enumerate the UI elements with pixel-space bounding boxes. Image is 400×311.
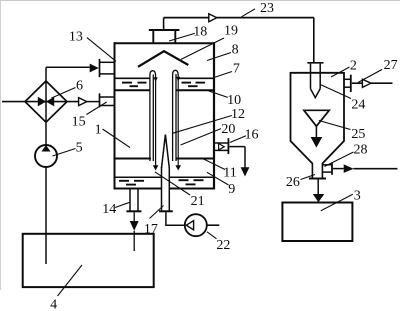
leader 7 xyxy=(214,72,232,78)
svg-text:14: 14 xyxy=(102,202,116,217)
svg-text:7: 7 xyxy=(233,62,240,77)
leader 28 xyxy=(325,152,354,167)
svg-text:13: 13 xyxy=(69,29,83,44)
cyclone bottom arrowhead xyxy=(313,194,325,202)
svg-text:19: 19 xyxy=(224,24,238,39)
right riser tube left wall xyxy=(172,75,174,162)
valve 28 bottom line xyxy=(322,171,331,173)
left riser tube 12 right wall xyxy=(152,75,154,162)
pipe 14 arrowhead xyxy=(130,221,139,231)
solid arrow into port 13 xyxy=(90,64,99,73)
branch line to port 13 xyxy=(46,66,90,68)
leader 11 xyxy=(202,158,226,170)
port 15 top line xyxy=(100,96,115,98)
liquid tildes upper-left tray xyxy=(122,83,147,87)
left tube flow line xyxy=(155,76,157,166)
vessel U1 lid xyxy=(114,42,216,44)
feed line from left edge xyxy=(2,101,79,103)
deflector 19 inverted V xyxy=(138,51,188,67)
cyclone 2 cone left xyxy=(291,141,313,164)
upper tray top left xyxy=(115,77,150,79)
outlet 16 arrowhead xyxy=(241,167,250,176)
svg-text:10: 10 xyxy=(227,93,241,108)
port 20 open arrow xyxy=(219,143,225,150)
central downcomer 17 left wall xyxy=(161,167,163,211)
chimney 18 left wall xyxy=(152,31,154,43)
svg-text:18: 18 xyxy=(193,24,207,39)
line diamond to pump 5 xyxy=(45,67,47,146)
central downcomer 21 wedge left xyxy=(162,135,166,169)
line arrow to port 15 xyxy=(87,101,99,103)
central downcomer 21 wedge right xyxy=(165,135,169,169)
port 20 bottom line xyxy=(215,149,228,151)
svg-text:23: 23 xyxy=(260,1,274,16)
pump 22 body xyxy=(185,214,207,236)
right tube bottom arrowhead xyxy=(175,165,181,170)
svg-text:8: 8 xyxy=(232,43,239,58)
right tube upper arrowhead xyxy=(176,77,180,82)
cyclone 2 left wall xyxy=(290,72,292,142)
svg-text:1: 1 xyxy=(95,123,102,138)
heat exchanger 6 diamond xyxy=(25,81,67,122)
valve 28 outlet line xyxy=(353,168,397,170)
port 13 bottom line xyxy=(100,73,115,75)
central downcomer 17 right wall xyxy=(168,167,170,211)
nozzle 27 line to arrow xyxy=(352,82,363,84)
partition shelf left xyxy=(115,158,151,160)
leader 6 xyxy=(52,88,76,99)
leader 26 xyxy=(301,175,316,180)
pump 22 outlet stub xyxy=(207,224,220,226)
funnel 25 arrowhead xyxy=(311,137,323,148)
svg-text:21: 21 xyxy=(191,194,205,209)
valve 28 flange xyxy=(331,162,333,174)
port 20 top line xyxy=(215,142,228,144)
nozzle 27 open arrow xyxy=(362,79,371,87)
leader 12 xyxy=(173,116,232,134)
left tube upper arrowhead xyxy=(154,77,158,82)
svg-text:11: 11 xyxy=(223,165,236,180)
leader 10 xyxy=(209,91,228,98)
vessel U1 bottom left segment xyxy=(114,188,162,190)
leader 23 xyxy=(242,9,256,17)
outlet 16 pipe vertical xyxy=(244,147,246,168)
vessel U1 right wall xyxy=(213,42,215,189)
leader 14 xyxy=(115,202,130,208)
riser pipe from chimney xyxy=(163,18,165,30)
pipe 14 drain line xyxy=(133,212,135,221)
partition shelf right xyxy=(176,158,213,160)
svg-text:3: 3 xyxy=(354,188,361,203)
svg-text:5: 5 xyxy=(76,140,83,155)
svg-text:28: 28 xyxy=(354,143,368,158)
upper tray bottom left xyxy=(115,89,151,91)
svg-text:9: 9 xyxy=(228,182,235,197)
liquid tildes lower-right xyxy=(179,180,204,184)
liquid tildes upper-right tray xyxy=(182,83,206,87)
cyclone 2 cone right xyxy=(322,141,344,164)
chimney 18 flange xyxy=(149,29,180,31)
leader 20 xyxy=(181,129,221,145)
return line from pump 5 into tank 4 xyxy=(45,167,47,264)
valve bowtie left triangle xyxy=(38,97,46,107)
leader 22 xyxy=(207,232,217,239)
bottom outlet pipe 14 right wall xyxy=(137,190,139,211)
valve 28 solid arrow xyxy=(344,164,354,173)
leader 15 xyxy=(87,102,107,115)
leader 24 xyxy=(321,85,351,99)
pump 5 body xyxy=(35,145,57,167)
funnel 25 stem xyxy=(315,126,317,137)
leader 1 xyxy=(103,129,131,148)
leader 5 xyxy=(53,149,76,157)
downcomer 17 bottom flange xyxy=(159,210,173,212)
cyclone 2 top xyxy=(291,72,345,74)
pipe 14 bottom flange xyxy=(126,210,141,212)
drop pipe into cyclone xyxy=(313,18,315,63)
leader 8 xyxy=(207,53,231,61)
svg-text:22: 22 xyxy=(216,238,230,253)
svg-text:12: 12 xyxy=(231,107,245,122)
leader 13 xyxy=(87,38,116,62)
port 15 bottom line xyxy=(100,105,115,107)
lower liquid surface right xyxy=(169,176,213,178)
left riser tube 12 left wall xyxy=(149,75,151,161)
nozzle 27 outlet line xyxy=(371,82,393,84)
overhead line 23 xyxy=(164,17,314,19)
upper tray bottom right xyxy=(176,89,213,91)
valve bowtie right triangle xyxy=(46,97,54,107)
cyclone bottom drop line xyxy=(317,180,319,195)
svg-text:25: 25 xyxy=(351,127,365,142)
inlet tube 24 left wall xyxy=(310,64,312,89)
port 13 flange xyxy=(99,59,101,77)
bottom outlet pipe 14 left wall xyxy=(129,190,131,211)
left tube hook top xyxy=(150,71,156,76)
cyclone neck right wall xyxy=(321,163,323,178)
svg-text:4: 4 xyxy=(50,298,57,311)
svg-text:15: 15 xyxy=(72,115,86,130)
leader 27 xyxy=(358,69,382,82)
valve 28 line to arrow xyxy=(333,168,344,170)
nozzle 27 flange xyxy=(350,75,352,92)
chimney 18 right wall xyxy=(174,31,176,43)
right tube flow line xyxy=(177,76,179,167)
inlet tube 24 right wall xyxy=(319,64,321,89)
leader 18 xyxy=(169,33,195,41)
leader 4 xyxy=(58,265,83,296)
leader 21 xyxy=(155,172,190,195)
svg-text:26: 26 xyxy=(286,175,300,190)
leader 9 xyxy=(207,172,229,185)
vessel U1 bottom right segment xyxy=(169,188,215,190)
svg-text:17: 17 xyxy=(144,222,158,237)
right riser tube right wall xyxy=(175,74,177,161)
cyclone neck bottom flange 26 xyxy=(309,178,326,180)
inlet tube 24 flange xyxy=(307,62,323,64)
outlet 16 pipe horizontal xyxy=(229,146,245,148)
right tube hook top xyxy=(173,70,179,75)
svg-text:16: 16 xyxy=(245,128,259,143)
port 15 flange xyxy=(99,93,101,107)
leader 2 xyxy=(331,67,350,77)
left tube bottom arrowhead xyxy=(153,165,159,170)
svg-text:27: 27 xyxy=(384,58,398,73)
port 13 top line xyxy=(100,61,115,63)
liquid tildes lower-left xyxy=(119,181,144,185)
cyclone neck left wall xyxy=(311,163,313,178)
port 20 flange xyxy=(227,138,229,154)
pump 22 impeller triangle xyxy=(186,221,193,230)
leader 3 xyxy=(321,194,353,211)
svg-text:20: 20 xyxy=(221,122,235,137)
svg-text:6: 6 xyxy=(76,78,83,93)
pipe 14 line into tank 4 xyxy=(133,231,135,251)
nozzle 27 top line xyxy=(344,78,350,80)
vessel U1 left wall xyxy=(114,42,116,189)
inlet tube 24 taper tip xyxy=(311,89,321,98)
leader 25 xyxy=(319,121,351,130)
valve 28 top line xyxy=(322,164,331,166)
svg-text:2: 2 xyxy=(350,59,357,74)
leader 16 xyxy=(230,136,246,143)
svg-text:24: 24 xyxy=(351,97,365,112)
nozzle 27 bottom line xyxy=(344,86,350,88)
leader 19 xyxy=(181,38,224,59)
lower liquid surface left xyxy=(116,176,162,178)
internal funnel 25 xyxy=(304,110,329,126)
cyclone 2 right wall xyxy=(343,72,345,142)
upper tray top right xyxy=(177,77,213,79)
tank 3 xyxy=(282,203,352,242)
leader 17 xyxy=(150,206,164,219)
pump 5 impeller triangle xyxy=(42,145,51,152)
open flow arrow on line 23 xyxy=(209,14,217,22)
tank 4 xyxy=(23,234,154,287)
open flow arrow to port 15 xyxy=(79,98,87,106)
drain line to pump 22 xyxy=(166,212,185,225)
